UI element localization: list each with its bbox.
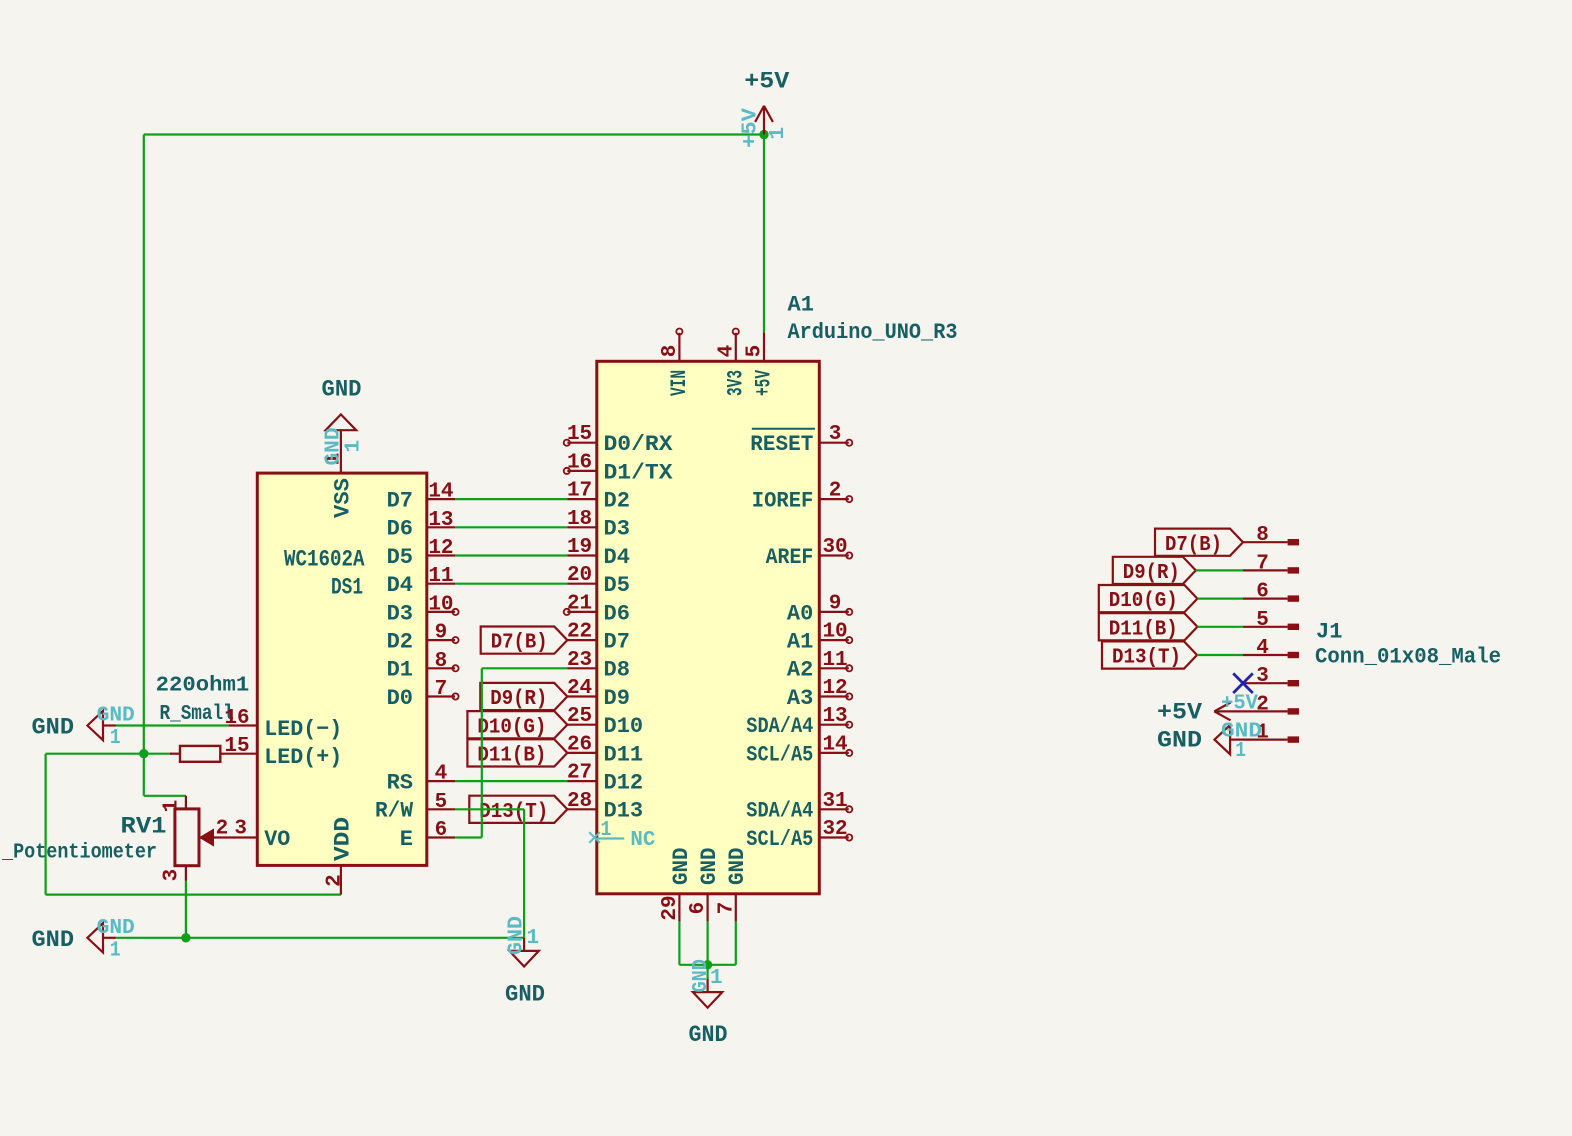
svg-text:2: 2 xyxy=(1256,693,1269,716)
svg-text:1: 1 xyxy=(767,127,790,140)
svg-text:13: 13 xyxy=(822,705,847,728)
svg-text:3: 3 xyxy=(1256,665,1269,688)
svg-text:3: 3 xyxy=(161,869,184,882)
svg-text:GND: GND xyxy=(725,848,750,886)
svg-text:29: 29 xyxy=(659,895,682,920)
svg-text:2: 2 xyxy=(216,818,229,841)
svg-text:GND: GND xyxy=(32,927,75,953)
svg-text:D10(G): D10(G) xyxy=(1109,590,1178,613)
svg-text:D12: D12 xyxy=(604,771,644,796)
svg-text:4: 4 xyxy=(715,345,738,358)
svg-text:4: 4 xyxy=(435,763,448,786)
svg-text:D9(R): D9(R) xyxy=(490,688,547,711)
svg-text:8: 8 xyxy=(435,650,448,673)
svg-text:1: 1 xyxy=(161,800,184,813)
svg-text:LED(+): LED(+) xyxy=(264,745,342,770)
svg-text:A1: A1 xyxy=(788,293,814,318)
svg-text:RS: RS xyxy=(387,771,413,796)
svg-text:D2: D2 xyxy=(387,630,413,655)
svg-text:2: 2 xyxy=(324,874,347,887)
svg-text:2: 2 xyxy=(829,480,842,503)
svg-text:9: 9 xyxy=(435,622,448,645)
svg-text:Arduino_UNO_R3: Arduino_UNO_R3 xyxy=(788,320,958,345)
svg-text:A3: A3 xyxy=(787,686,813,711)
svg-text:30: 30 xyxy=(822,536,847,559)
svg-text:28: 28 xyxy=(567,790,592,813)
svg-text:RV1: RV1 xyxy=(121,814,167,840)
svg-text:GND: GND xyxy=(505,982,545,1008)
svg-text:5: 5 xyxy=(1256,609,1269,632)
svg-text:SCL/A5: SCL/A5 xyxy=(746,742,813,767)
svg-text:DS1: DS1 xyxy=(331,575,363,601)
svg-text:A1: A1 xyxy=(787,630,813,655)
svg-text:GND: GND xyxy=(1157,728,1202,754)
svg-text:J1: J1 xyxy=(1316,620,1342,645)
svg-text:4: 4 xyxy=(1256,637,1269,660)
svg-text:GND: GND xyxy=(669,848,694,886)
svg-text:14: 14 xyxy=(822,733,847,756)
svg-text:GND: GND xyxy=(697,848,722,886)
svg-text:R/W: R/W xyxy=(375,799,414,824)
svg-text:9: 9 xyxy=(829,592,842,615)
svg-text:RESET: RESET xyxy=(750,432,813,457)
svg-text:19: 19 xyxy=(567,536,592,559)
svg-text:5: 5 xyxy=(435,791,448,814)
svg-text:D10(G): D10(G) xyxy=(477,716,546,739)
svg-text:3: 3 xyxy=(829,423,842,446)
svg-text:NC: NC xyxy=(630,829,655,852)
svg-text:220ohm1: 220ohm1 xyxy=(156,675,250,698)
svg-text:11: 11 xyxy=(822,649,847,672)
svg-text:12: 12 xyxy=(428,537,453,560)
svg-text:31: 31 xyxy=(822,790,847,813)
svg-text:R_Small: R_Small xyxy=(160,703,234,726)
svg-text:D13(T): D13(T) xyxy=(479,801,548,824)
svg-text:Conn_01x08_Male: Conn_01x08_Male xyxy=(1315,645,1501,670)
svg-text:VDD: VDD xyxy=(331,817,356,861)
svg-text:D4: D4 xyxy=(604,545,630,570)
svg-text:AREF: AREF xyxy=(766,545,814,570)
svg-text:10: 10 xyxy=(822,621,847,644)
svg-text:GND: GND xyxy=(322,377,362,403)
svg-text:+5V: +5V xyxy=(740,108,763,148)
svg-text:A0: A0 xyxy=(787,601,813,626)
svg-text:18: 18 xyxy=(567,508,592,531)
svg-text:10: 10 xyxy=(428,593,453,616)
svg-text:_Potentiometer: _Potentiometer xyxy=(1,842,157,865)
svg-text:WC1602A: WC1602A xyxy=(284,547,365,573)
svg-text:6: 6 xyxy=(687,902,710,915)
svg-text:3V3: 3V3 xyxy=(723,370,748,396)
svg-text:SCL/A5: SCL/A5 xyxy=(746,827,813,852)
svg-text:D1/TX: D1/TX xyxy=(604,460,674,485)
svg-text:26: 26 xyxy=(567,733,592,756)
svg-text:8: 8 xyxy=(659,345,682,358)
svg-text:GND: GND xyxy=(689,1022,728,1048)
svg-text:1: 1 xyxy=(343,440,366,453)
svg-text:1: 1 xyxy=(527,927,540,950)
svg-text:7: 7 xyxy=(435,678,448,701)
svg-text:D0/RX: D0/RX xyxy=(604,432,674,457)
svg-text:D13(T): D13(T) xyxy=(1112,647,1181,670)
svg-text:D11(B): D11(B) xyxy=(1109,618,1178,641)
svg-text:D3: D3 xyxy=(604,517,630,542)
svg-text:1: 1 xyxy=(710,967,723,990)
svg-text:5: 5 xyxy=(744,345,767,358)
svg-text:D11(B): D11(B) xyxy=(477,745,546,768)
svg-text:17: 17 xyxy=(567,480,592,503)
svg-text:D9(R): D9(R) xyxy=(1123,562,1180,585)
svg-text:A2: A2 xyxy=(787,658,813,683)
svg-text:D7: D7 xyxy=(604,630,630,655)
svg-text:6: 6 xyxy=(1256,581,1269,604)
svg-text:21: 21 xyxy=(567,592,592,615)
svg-text:SDA/A4: SDA/A4 xyxy=(746,799,813,824)
svg-text:VO: VO xyxy=(264,827,290,852)
svg-text:VSS: VSS xyxy=(331,478,356,518)
svg-text:6: 6 xyxy=(435,819,448,842)
svg-text:D6: D6 xyxy=(387,517,413,542)
svg-text:D6: D6 xyxy=(604,601,630,626)
svg-text:8: 8 xyxy=(1256,524,1269,547)
svg-text:1: 1 xyxy=(110,939,121,962)
svg-text:+5V: +5V xyxy=(1157,700,1202,726)
svg-text:24: 24 xyxy=(567,677,592,700)
svg-text:20: 20 xyxy=(567,564,592,587)
svg-text:D4: D4 xyxy=(387,573,413,598)
svg-text:D9: D9 xyxy=(604,686,630,711)
svg-text:+5V: +5V xyxy=(1221,693,1258,716)
svg-text:1: 1 xyxy=(1235,740,1246,763)
svg-text:3: 3 xyxy=(234,818,247,841)
svg-text:D5: D5 xyxy=(604,573,630,598)
svg-text:7: 7 xyxy=(715,902,738,915)
svg-text:16: 16 xyxy=(567,451,592,474)
svg-text:SDA/A4: SDA/A4 xyxy=(746,714,813,739)
svg-text:12: 12 xyxy=(822,677,847,700)
svg-text:GND: GND xyxy=(506,916,529,955)
svg-text:15: 15 xyxy=(567,423,592,446)
svg-text:GND: GND xyxy=(97,917,135,940)
svg-text:13: 13 xyxy=(428,509,453,532)
svg-text:GND: GND xyxy=(97,705,135,728)
svg-text:15: 15 xyxy=(224,735,249,758)
svg-text:D3: D3 xyxy=(387,601,413,626)
svg-text:D2: D2 xyxy=(604,489,630,514)
svg-text:D7(B): D7(B) xyxy=(1165,534,1222,557)
svg-text:27: 27 xyxy=(567,762,592,785)
svg-text:D1: D1 xyxy=(387,658,413,683)
svg-text:11: 11 xyxy=(428,565,453,588)
svg-text:14: 14 xyxy=(428,481,453,504)
svg-text:22: 22 xyxy=(567,621,592,644)
svg-text:1: 1 xyxy=(110,727,121,750)
svg-text:16: 16 xyxy=(224,707,249,730)
svg-text:7: 7 xyxy=(1256,552,1269,575)
svg-text:D10: D10 xyxy=(604,714,644,739)
svg-text:+5V: +5V xyxy=(752,369,777,396)
svg-text:LED(−): LED(−) xyxy=(264,717,342,742)
svg-text:VIN: VIN xyxy=(667,370,692,396)
svg-text:D7(B): D7(B) xyxy=(491,632,548,655)
svg-text:23: 23 xyxy=(567,649,592,672)
svg-text:E: E xyxy=(400,827,413,852)
svg-text:D11: D11 xyxy=(604,742,644,767)
svg-text:D5: D5 xyxy=(387,545,413,570)
svg-text:D7: D7 xyxy=(387,489,413,514)
svg-text:GND: GND xyxy=(32,715,75,741)
svg-text:32: 32 xyxy=(822,818,847,841)
svg-text:25: 25 xyxy=(567,705,592,728)
svg-text:D8: D8 xyxy=(604,658,630,683)
svg-text:D0: D0 xyxy=(387,686,413,711)
svg-text:+5V: +5V xyxy=(744,69,789,95)
svg-text:IOREF: IOREF xyxy=(752,489,814,514)
